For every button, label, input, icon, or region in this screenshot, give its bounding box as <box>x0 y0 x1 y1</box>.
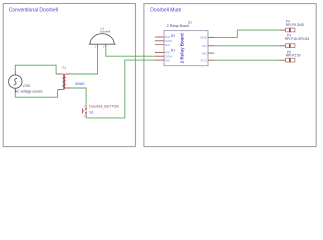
svg-text:T1: T1 <box>62 66 66 70</box>
wire relay GND to connector P4 <box>214 30 278 37</box>
relay pin GND <box>208 36 214 38</box>
svg-text:2 Relay Board: 2 Relay Board <box>180 33 185 63</box>
wire transformer secondary bottom to switch S1 top <box>71 88 87 105</box>
relay pin IN1 <box>208 45 214 47</box>
svg-text:N/C: N/C <box>165 58 171 62</box>
switch S1 bottom pin <box>85 113 87 118</box>
svg-text:Doorbell_BUTTON: Doorbell_BUTTON <box>89 104 119 108</box>
svg-text:R1: R1 <box>171 49 175 53</box>
switch S1 top pin <box>85 105 87 108</box>
svg-text:RPI-P18 GPIO24: RPI-P18 GPIO24 <box>285 37 310 41</box>
enclosure box Conventional Doorbell <box>3 4 135 147</box>
svg-text:Doorbell Mute: Doorbell Mute <box>150 7 181 13</box>
connector P4 pin <box>279 29 286 31</box>
enclosure box Doorbell Mute <box>144 4 316 147</box>
svg-text:IN1: IN1 <box>202 44 207 48</box>
wire transformer secondary top to doorbell pin 1 <box>71 48 98 74</box>
transformer T1 secondary lead bottom <box>66 87 71 89</box>
switch S1 actuator <box>82 108 84 113</box>
relay pin R2 COM <box>155 40 164 42</box>
svg-text:GND: GND <box>200 36 208 40</box>
svg-text:2 Relay Board: 2 Relay Board <box>167 24 189 28</box>
svg-text:AC voltage source: AC voltage source <box>15 90 43 94</box>
svg-text:Conventional Doorbell: Conventional Doorbell <box>9 7 58 13</box>
AC source V230 body <box>9 75 22 88</box>
wire relay IN1 to connector P3 <box>214 45 278 47</box>
wire relay VCC to connector P5 <box>214 59 278 61</box>
svg-text:VCC: VCC <box>201 58 208 62</box>
transformer T1 core <box>62 74 64 90</box>
transformer T1 secondary winding <box>64 74 66 88</box>
wire switch S1 bottom to relay R1 N/C <box>86 60 155 118</box>
connector P3 pin <box>279 45 286 47</box>
svg-text:IN2: IN2 <box>202 51 207 55</box>
svg-text:S1: S1 <box>89 111 93 115</box>
doorbell U1 dome body <box>89 34 116 44</box>
transformer T1 secondary lead top <box>66 73 71 75</box>
svg-text:Doorbell: Doorbell <box>100 29 110 33</box>
relay pin R1 COM <box>155 55 164 57</box>
wire doorbell pin 2 to relay R1 COM <box>106 48 155 56</box>
svg-text:RPI-P2 5V: RPI-P2 5V <box>286 54 302 58</box>
doorbell U1 pin 2 <box>105 44 107 48</box>
svg-text:8VAC: 8VAC <box>75 82 85 86</box>
connector P3 body <box>286 44 295 48</box>
AC source V230 top pin <box>14 70 16 75</box>
connector P5 body <box>286 58 295 62</box>
relay board U1 body <box>164 31 208 66</box>
connector P5 pin <box>279 59 286 61</box>
svg-text:RPI-P9 GND: RPI-P9 GND <box>286 23 305 27</box>
doorbell U1 pin 1 <box>97 44 99 48</box>
connector P4 body <box>286 28 295 32</box>
wire AC bottom to transformer primary bottom <box>15 90 57 98</box>
relay pin VCC <box>208 59 214 61</box>
switch S1 contacts <box>85 109 86 110</box>
relay pin IN2 <box>208 52 214 54</box>
relay pin R1 N/O <box>155 51 164 53</box>
svg-text:N/C: N/C <box>165 43 171 47</box>
svg-text:R2: R2 <box>171 34 175 38</box>
AC source V230 bottom pin <box>14 88 16 93</box>
transformer T1 primary winding <box>62 74 64 90</box>
svg-text:V230: V230 <box>22 84 30 88</box>
relay pin R2 N/C <box>155 44 164 46</box>
transformer T1 primary lead bottom <box>58 89 63 91</box>
relay pin R1 N/C <box>155 59 164 61</box>
wire AC top to transformer primary top <box>15 65 56 74</box>
transformer T1 primary lead top <box>56 73 62 75</box>
relay pin R2 N/O <box>155 36 164 38</box>
